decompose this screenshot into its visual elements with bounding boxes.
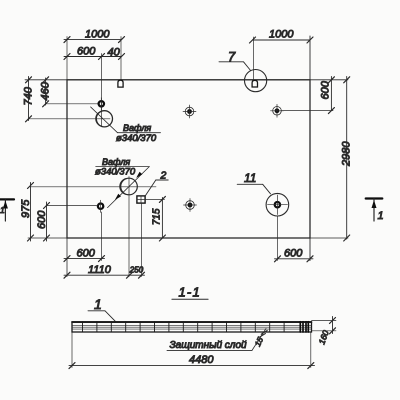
dim 600 left lower	[44, 202, 50, 241]
dim 460 left	[43, 77, 49, 107]
svg-text:600: 600	[77, 248, 96, 260]
extension line 460 to bolt	[46, 103, 98, 105]
dim 600 right vertical	[328, 77, 334, 114]
bolt B2	[98, 200, 103, 212]
waffle label 2 text	[96, 167, 150, 208]
svg-text:1-1: 1-1	[179, 285, 201, 300]
svg-text:Вафля: Вафля	[102, 157, 130, 167]
bolt B1	[99, 98, 104, 110]
slab section	[72, 322, 312, 332]
label 7	[219, 62, 251, 71]
extension 600 to bolt B2	[47, 205, 98, 207]
extension H2 down	[128, 177, 130, 277]
bottom edge extension line	[28, 237, 348, 239]
svg-text:11: 11	[244, 171, 256, 185]
label 2	[145, 180, 168, 196]
dim 1000 top-right	[250, 37, 314, 80]
right edge extension	[309, 36, 311, 261]
svg-text:1: 1	[378, 210, 384, 222]
svg-text:2: 2	[160, 170, 167, 182]
svg-text:600: 600	[320, 80, 332, 99]
hole 7	[245, 70, 267, 92]
svg-text:975: 975	[20, 199, 32, 218]
dim 975 left lower	[28, 183, 34, 242]
slab right end block	[300, 322, 308, 332]
dim 1000 top-left	[64, 37, 125, 80]
section mark left	[0, 199, 14, 221]
dim 4480	[69, 332, 315, 369]
dim 600 / 40 top-left	[64, 37, 125, 127]
dim 15 ticks	[261, 331, 267, 335]
svg-text:600: 600	[36, 210, 48, 229]
svg-text:1000: 1000	[269, 29, 294, 41]
svg-text:2980: 2980	[341, 141, 353, 167]
label 11	[237, 184, 270, 194]
svg-text:1110: 1110	[88, 264, 112, 276]
section mark right	[366, 199, 383, 222]
svg-text:4480: 4480	[189, 354, 214, 366]
square S1	[137, 196, 145, 203]
svg-text:7: 7	[228, 49, 236, 64]
target T3	[184, 199, 197, 212]
svg-text:715: 715	[151, 208, 162, 225]
top edge extension line	[25, 79, 348, 81]
dim 160	[312, 317, 337, 334]
svg-text:600: 600	[284, 248, 303, 260]
svg-text:1: 1	[94, 296, 102, 312]
extension S1 down	[141, 204, 143, 277]
dim 715	[145, 196, 165, 241]
bottom dim 600	[64, 256, 105, 262]
svg-text:Защитный слой: Защитный слой	[170, 340, 248, 351]
leader waffle label 1	[91, 107, 118, 133]
leader to slab	[252, 329, 266, 351]
target T2	[271, 104, 284, 117]
hole 11	[266, 193, 289, 216]
svg-text:40: 40	[108, 47, 121, 59]
bottom right dim 600	[275, 216, 314, 262]
fitting F1 at top edge	[118, 80, 123, 87]
svg-text:1000: 1000	[85, 29, 110, 41]
hole H2 (waffle)	[120, 178, 138, 195]
dim 740 left	[26, 77, 32, 122]
dim 2980 right	[344, 77, 350, 242]
svg-text:600: 600	[77, 46, 96, 58]
svg-text:460: 460	[40, 81, 52, 100]
extension line 740 to hole center	[29, 118, 111, 120]
target T1	[183, 105, 196, 118]
slab rib dividers	[83, 322, 285, 332]
waffle label 1 text	[118, 132, 161, 134]
line from T2 to right 600 dim	[281, 110, 333, 112]
svg-text:Вафля: Вафля	[123, 123, 151, 133]
left edge extension down	[66, 238, 68, 277]
extension bolt B2 down	[101, 212, 103, 261]
bottom dim 1110 and 250	[64, 272, 145, 278]
label 1 (slab)	[88, 311, 116, 323]
svg-text:740: 740	[23, 86, 35, 105]
hole H1 (waffle)	[96, 111, 113, 127]
svg-text:1: 1	[0, 205, 5, 215]
panel outline	[67, 80, 310, 238]
svg-text:ø340/370: ø340/370	[95, 167, 136, 178]
extension 975 to H2 center	[31, 186, 157, 188]
svg-text:ø340/370: ø340/370	[116, 133, 157, 144]
